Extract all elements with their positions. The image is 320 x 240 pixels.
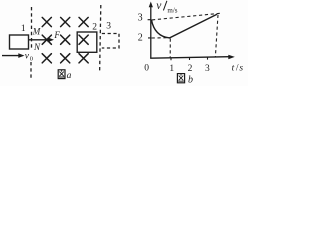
- svg-text:F: F: [53, 30, 60, 40]
- caption 图 a: [58, 70, 65, 79]
- x axis: [150, 57, 229, 59]
- y ticks: [148, 20, 152, 38]
- dashed level v=3: [152, 13, 220, 20]
- velocity v0 arrow: [2, 55, 20, 57]
- cross grid row 3: [42, 54, 88, 63]
- svg-text:N: N: [33, 42, 41, 52]
- caption 图 b: [177, 74, 184, 83]
- svg-text:v: v: [156, 0, 162, 12]
- x ticks: [171, 57, 208, 60]
- svg-text:t: t: [232, 63, 235, 73]
- svg-text:0: 0: [30, 56, 33, 63]
- svg-text:3: 3: [138, 13, 143, 24]
- svg-text:3: 3: [106, 22, 111, 32]
- dashed vertical t=1: [169, 39, 171, 58]
- svg-text:M: M: [32, 27, 41, 37]
- v-t curve: [151, 14, 217, 38]
- svg-text:0: 0: [144, 64, 149, 74]
- svg-text:2: 2: [92, 22, 97, 32]
- svg-text:2: 2: [188, 64, 193, 74]
- svg-text:s: s: [239, 63, 243, 73]
- svg-text:3: 3: [205, 64, 210, 74]
- svg-text:1: 1: [21, 24, 26, 34]
- svg-text:b: b: [188, 75, 193, 86]
- conducting loop (start position): [10, 35, 29, 49]
- cross grid row 2: [42, 35, 88, 44]
- loop fully inside field (solid rect): [77, 32, 97, 52]
- svg-text:2: 2: [138, 33, 143, 44]
- dashed level v=2: [152, 37, 170, 39]
- boundary line 1 (dashed): [30, 7, 33, 78]
- cross grid row 1: [42, 17, 88, 26]
- boundary line 2 (dashed): [100, 5, 101, 73]
- svg-text:m/s: m/s: [167, 6, 177, 14]
- svg-text:1: 1: [169, 64, 174, 74]
- final loop position (dashed rect): [102, 34, 119, 49]
- dashed vertical t=3: [215, 15, 218, 57]
- force F arrow: [29, 39, 49, 41]
- y axis: [150, 6, 152, 59]
- svg-text:a: a: [67, 71, 72, 81]
